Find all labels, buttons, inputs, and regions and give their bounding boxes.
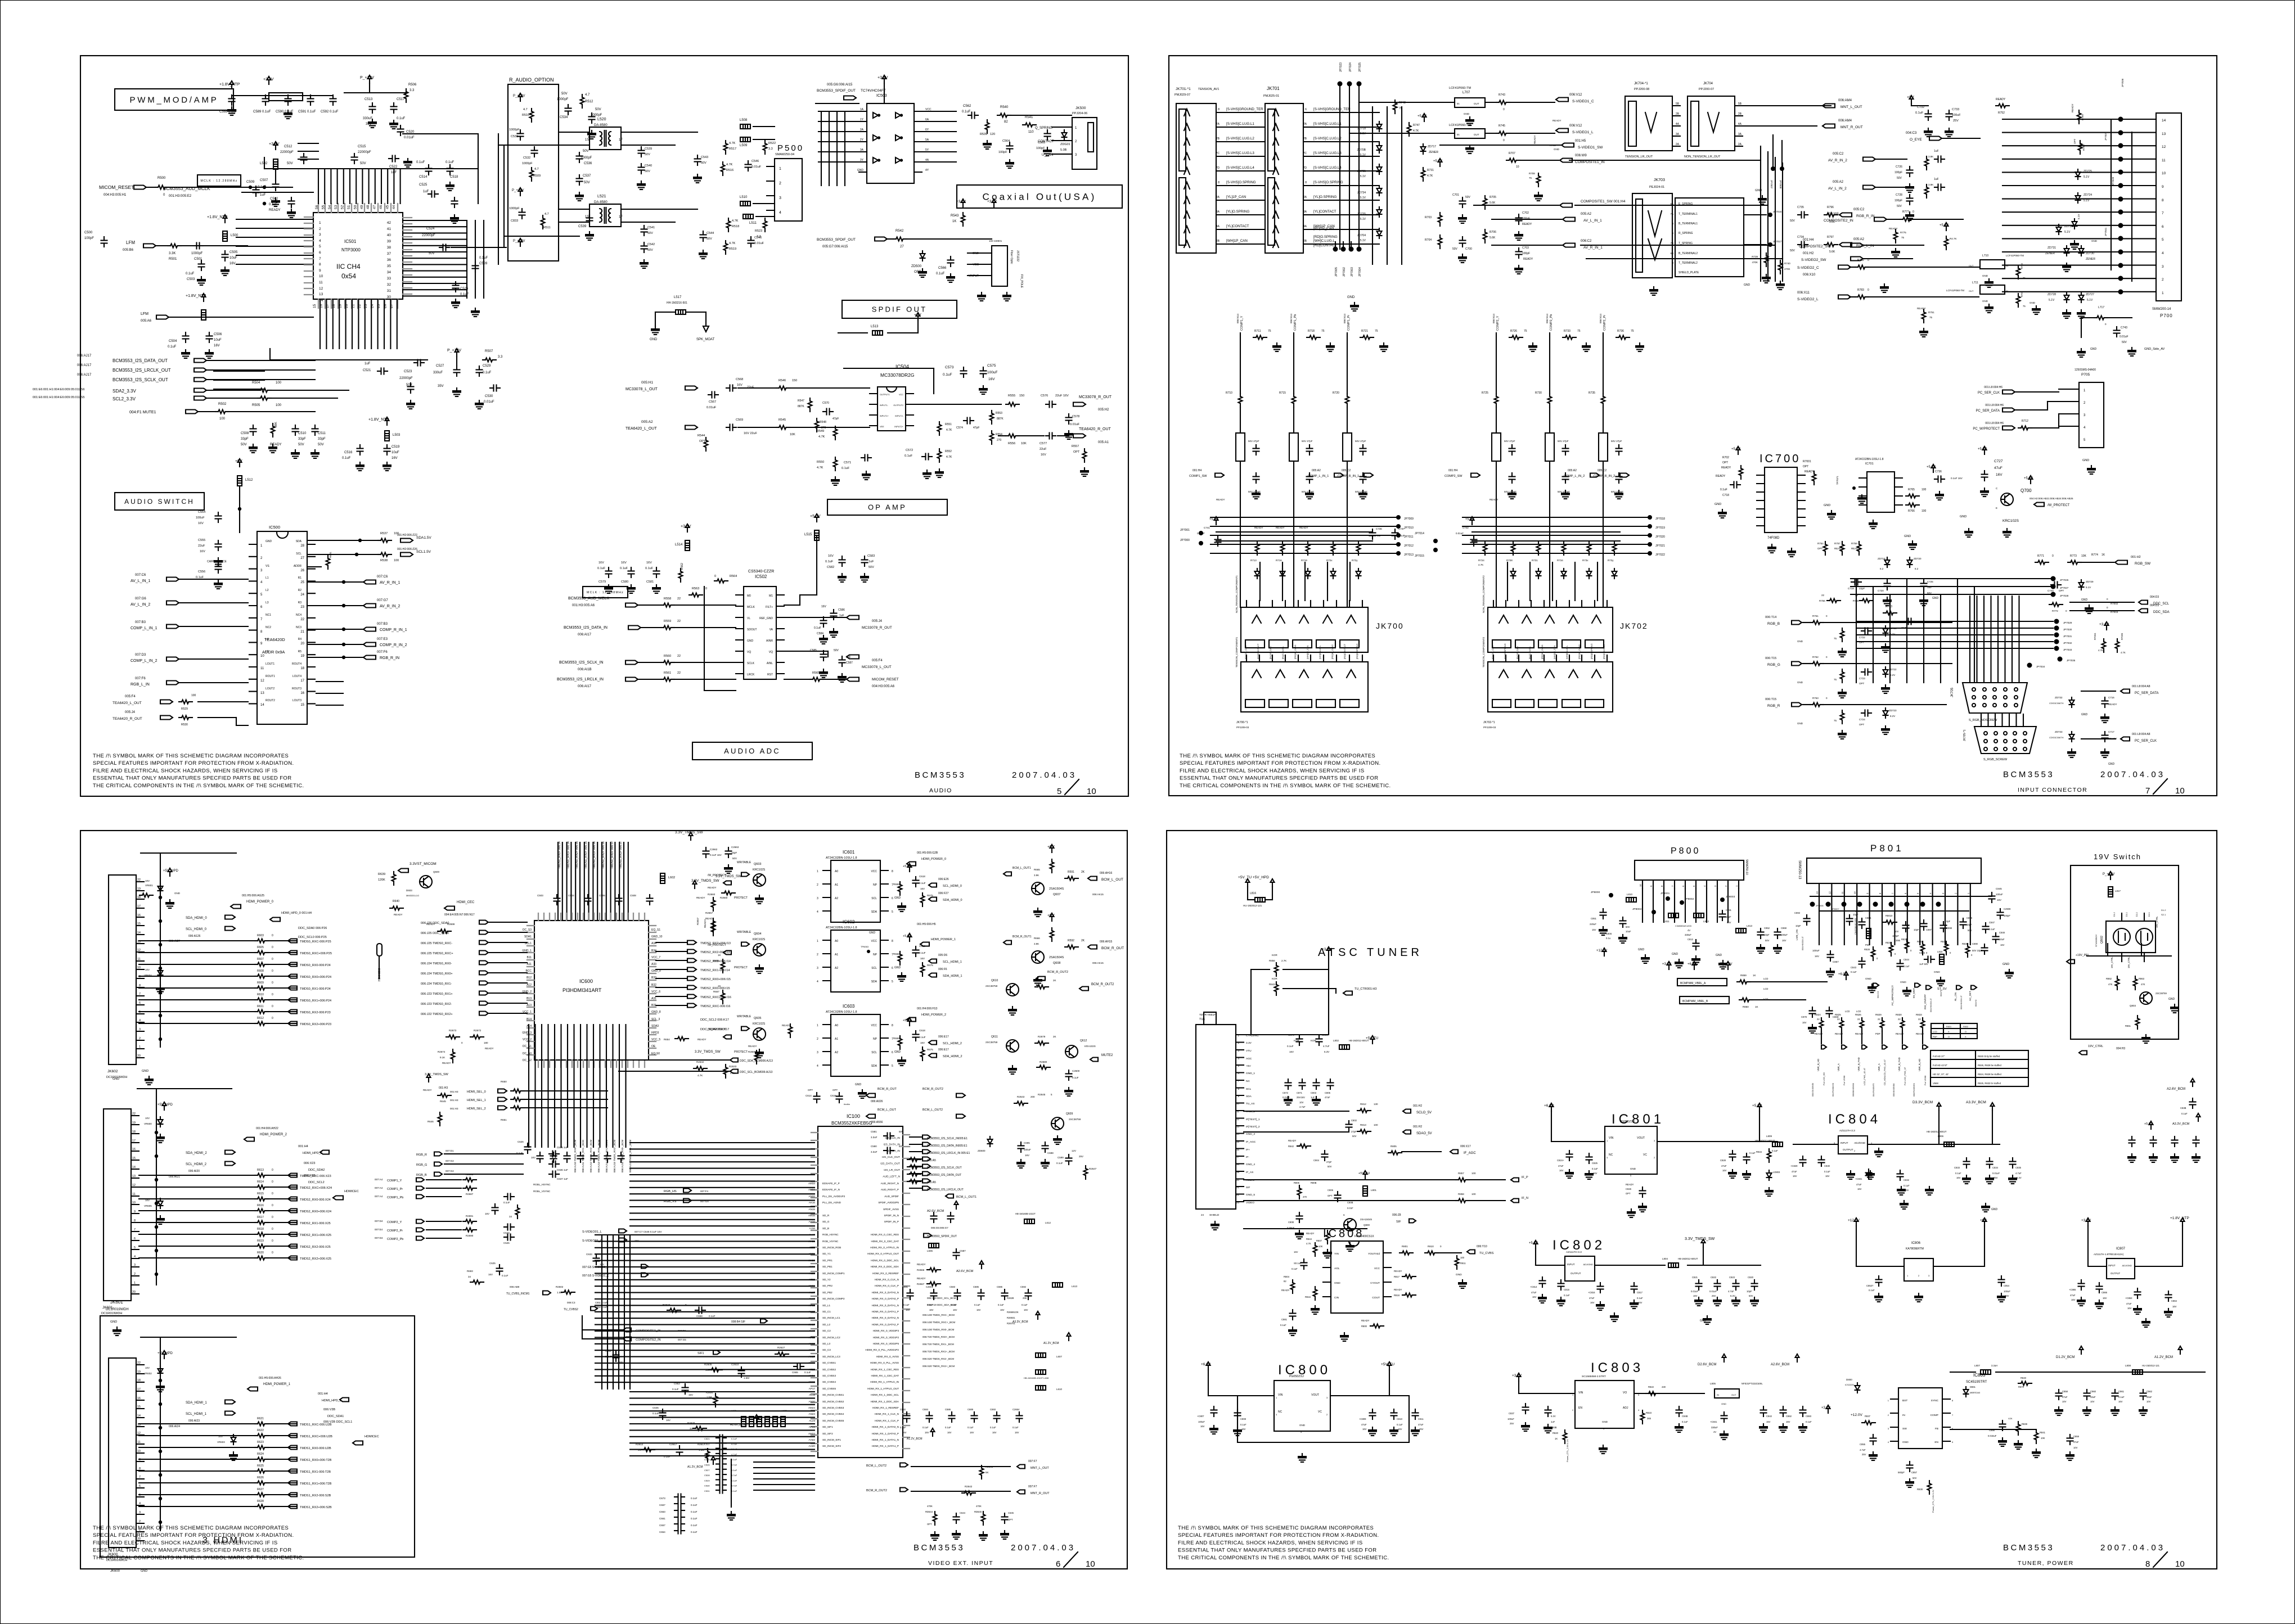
- svg-text:R734: R734: [1557, 559, 1563, 562]
- svg-text:001:H5:006:G2B: 001:H5:006:G2B: [917, 851, 938, 855]
- svg-text:HDMI_RX_0_CEC_DAT: HDMI_RX_0_CEC_DAT: [871, 1240, 899, 1243]
- svg-text:7B: 7B: [1670, 242, 1673, 245]
- svg-text:C833: C833: [511, 219, 518, 223]
- svg-text:R824, R829 be stuffed: R824, R829 be stuffed: [1978, 1073, 2001, 1076]
- svg-text:PC_SER_CLK: PC_SER_CLK: [1978, 391, 2000, 395]
- svg-text:HDMI_RX_1_DDC_SDA: HDMI_RX_1_DDC_SDA: [871, 1400, 899, 1403]
- svg-text:AN32: AN32: [809, 1195, 816, 1198]
- IC500 right pin: [307, 679, 315, 680]
- svg-text:ROUT4: ROUT4: [292, 662, 301, 666]
- svg-text:+C829: +C829: [1790, 1165, 1798, 1167]
- svg-text:3.3V: 3.3V: [1246, 1041, 1252, 1045]
- capacitor C569: [726, 425, 736, 431]
- svg-text:0.1uF: 0.1uF: [1806, 1420, 1812, 1423]
- diode ZD71x: [1612, 569, 1617, 579]
- svg-text:BCMPWM_VBRL_B: BCMPWM_VBRL_B: [1682, 1000, 1708, 1003]
- capacitor C535: [589, 113, 595, 123]
- svg-text:16V: 16V: [1693, 1294, 1698, 1297]
- connector JK705 S_RGB_NOSCREW: [1963, 683, 2027, 713]
- svg-text:C564: C564: [1002, 139, 1010, 143]
- svg-text:5: 5: [1916, 892, 1919, 894]
- inductor L708 LCF41P060-TM: [1455, 129, 1485, 138]
- svg-text:SD_INCM_SIF2: SD_INCM_SIF2: [822, 1445, 841, 1447]
- inductor L509: [740, 137, 750, 142]
- net flag: [244, 1138, 254, 1142]
- net flag: [1471, 473, 1480, 477]
- capacitor C591: [308, 95, 314, 105]
- junction JP7033: [2054, 646, 2059, 651]
- svg-text:18: 18: [300, 667, 304, 670]
- svg-text:18: 18: [1236, 1163, 1240, 1166]
- svg-text:L801: L801: [1371, 1189, 1377, 1192]
- svg-text:1: 1: [1967, 892, 1970, 894]
- svg-text:19: 19: [1236, 1171, 1240, 1174]
- svg-text:2007.04.03: 2007.04.03: [1011, 1543, 1075, 1553]
- P700 pin wire: [2121, 291, 2156, 292]
- svg-text:SYNC: SYNC: [1931, 1399, 1939, 1402]
- capacitor C586: [831, 610, 837, 620]
- JK701-1 pin: [1216, 127, 1224, 128]
- svg-text:0: 0: [1876, 957, 1878, 960]
- IC503 right pin: [914, 121, 922, 122]
- resistor R77y: [1925, 184, 1929, 198]
- svg-text:ESSENTIAL THAT ONLY MANUFATURE: ESSENTIAL THAT ONLY MANUFATURES SPECFIED…: [1178, 1548, 1376, 1554]
- svg-text:C579: C579: [598, 580, 606, 584]
- junction JP7022: [1648, 551, 1652, 556]
- svg-text:HDMI_RX_0_PLL_AVSS: HDMI_RX_0_PLL_AVSS: [870, 1361, 899, 1364]
- svg-text:1: 1: [1907, 1274, 1909, 1277]
- svg-text:1000pF: 1000pF: [557, 98, 569, 101]
- svg-text:IC806: IC806: [1911, 1242, 1921, 1245]
- ground: [983, 141, 992, 149]
- svg-text:[YL]O.SPRING: [YL]O.SPRING: [1226, 210, 1249, 214]
- svg-text:16V 22uF: 16V 22uF: [744, 432, 757, 435]
- svg-text:HDMI_RX_0_CEC_RES: HDMI_RX_0_CEC_RES: [871, 1233, 899, 1236]
- wire: [307, 540, 378, 541]
- capacitor C512: [301, 154, 307, 164]
- svg-text:IC500: IC500: [269, 525, 280, 530]
- svg-text:TU1: TU1: [1199, 1018, 1205, 1021]
- net flag: [628, 626, 641, 630]
- svg-text:SIF1: SIF1: [697, 1352, 704, 1355]
- resistor R538: [378, 553, 391, 557]
- pwr: [238, 459, 242, 467]
- svg-text:006:AJ17: 006:AJ17: [77, 354, 92, 358]
- svg-text:HDMI_RX_0_DATA0_P: HDMI_RX_0_DATA0_P: [872, 1297, 899, 1300]
- ground: [2100, 749, 2109, 757]
- svg-text:B: B: [1343, 1214, 1345, 1216]
- resistor R505: [258, 396, 271, 400]
- svg-text:R724: R724: [1478, 559, 1484, 562]
- svg-text:JP7036: JP7036: [2121, 78, 2124, 87]
- ground: [205, 350, 214, 358]
- svg-text:10pF: 10pF: [1747, 1290, 1752, 1293]
- capacitor C555: [215, 540, 222, 551]
- svg-text:R826, R829 be stuffed: R826, R829 be stuffed: [1978, 1064, 2001, 1067]
- svg-text:[GN]O.SPRING: [GN]O.SPRING: [1504, 643, 1506, 659]
- svg-text:55: 55: [321, 205, 325, 209]
- svg-text:VBR_B_HD: VBR_B_HD: [1918, 1059, 1921, 1071]
- svg-text:0.1uF: 0.1uF: [998, 1303, 1004, 1306]
- svg-text:R710: R710: [1226, 391, 1232, 395]
- svg-text:470K: 470K: [1784, 268, 1790, 270]
- svg-text:TMDS2_RX2-006:X25: TMDS2_RX2-006:X25: [300, 1246, 331, 1249]
- svg-text:C822: C822: [1711, 1276, 1717, 1279]
- svg-text:R556: R556: [1008, 442, 1015, 445]
- resistor R517: [724, 141, 728, 154]
- svg-text:0.1uF: 0.1uF: [269, 203, 278, 206]
- svg-text:16V: 16V: [1241, 1428, 1246, 1431]
- wires to JP dots 1: [1210, 517, 1398, 553]
- P700 pin wire: [2121, 172, 2156, 173]
- svg-text:AK16: AK16: [809, 1201, 816, 1204]
- zener ZD704: [1377, 228, 1382, 238]
- svg-text:16V: 16V: [1532, 1296, 1537, 1298]
- svg-text:Q612: Q612: [1080, 1039, 1087, 1043]
- resistor R754: [1824, 542, 1828, 555]
- transformer L521 DA-8580: [589, 204, 621, 227]
- svg-text:HDMI_HPD_0 001:H4: HDMI_HPD_0 001:H4: [281, 912, 312, 915]
- svg-text:0: 0: [272, 1005, 273, 1008]
- svg-text:1K: 1K: [1755, 1005, 1758, 1008]
- svg-text:4.7K: 4.7K: [818, 435, 825, 439]
- svg-text:JP7029: JP7029: [2063, 621, 2072, 624]
- svg-text:TENSION_LR_OUT: TENSION_LR_OUT: [1625, 155, 1653, 159]
- svg-text:16V: 16V: [1593, 1172, 1597, 1175]
- resistor R550: [834, 457, 838, 471]
- ground: [1881, 685, 1890, 693]
- box C590: [269, 93, 303, 101]
- svg-text:0.1uF: 0.1uF: [460, 293, 469, 296]
- svg-text:C84B: C84B: [1682, 1415, 1688, 1418]
- svg-text:Power_CTL_2.6V:1.2V: Power_CTL_2.6V:1.2V: [1932, 1490, 1934, 1513]
- svg-text:C899: C899: [1966, 917, 1973, 919]
- P700 pin wire: [2121, 145, 2156, 146]
- svg-text:8.2: 8.2: [1880, 567, 1884, 570]
- svg-text:BCM_L_OUT2: BCM_L_OUT2: [922, 1108, 943, 1112]
- junction JP7018: [1648, 515, 1652, 520]
- svg-text:0.1uF: 0.1uF: [936, 272, 945, 276]
- svg-text:7: 7: [1891, 892, 1894, 894]
- wire: [1863, 258, 1912, 259]
- svg-text:JP7021: JP7021: [1655, 544, 1665, 548]
- svg-text:PDP: PDP: [1933, 1036, 1937, 1038]
- svg-text:RST: RST: [767, 673, 773, 676]
- capacitor C528: [472, 262, 479, 272]
- junction JP7016: [1768, 213, 1772, 217]
- svg-text:3.9K: 3.9K: [1034, 874, 1039, 877]
- svg-text:READY: READY: [1721, 466, 1731, 470]
- JK701 pin names: [1313, 107, 1351, 243]
- svg-text:IN: IN: [1457, 133, 1460, 136]
- resistor R544: [704, 437, 708, 451]
- svg-text:005:C2: 005:C2: [1853, 208, 1865, 211]
- IC500 right pin names: [292, 540, 302, 702]
- svg-text:50V: 50V: [1912, 1477, 1917, 1479]
- ground: [1080, 468, 1089, 476]
- IC504 left pin: [870, 425, 877, 426]
- svg-text:B14: B14: [526, 1018, 532, 1021]
- svg-text:C700: C700: [1465, 247, 1472, 251]
- svg-text:887K: 887K: [997, 417, 1003, 421]
- zener ZD724: [2076, 193, 2081, 203]
- svg-text:SD_SIF1: SD_SIF1: [822, 1425, 833, 1428]
- svg-text:A0: A0: [835, 870, 838, 873]
- svg-text:WRITABLE: WRITABLE: [737, 1015, 751, 1018]
- svg-text:GND: GND: [1456, 1273, 1462, 1276]
- svg-text:0.1uF: 0.1uF: [445, 161, 454, 164]
- svg-text:4.7: 4.7: [585, 93, 590, 97]
- svg-text:OPT: OPT: [1817, 547, 1823, 550]
- svg-text:COMP: COMP: [1930, 1414, 1938, 1417]
- net flag: [1563, 218, 1575, 222]
- svg-text:0.1uF: 0.1uF: [967, 1426, 974, 1429]
- svg-text:C517: C517: [397, 98, 405, 101]
- svg-text:[RD]O.SPRING: [RD]O.SPRING: [1590, 643, 1593, 659]
- svg-text:C741: C741: [1204, 526, 1210, 529]
- svg-text:R518: R518: [732, 225, 739, 228]
- svg-text:MC33078_L_OUT: MC33078_L_OUT: [625, 387, 658, 391]
- resistor R728: [1511, 542, 1515, 555]
- svg-text:R512: R512: [585, 100, 593, 103]
- wire: [2047, 402, 2048, 410]
- svg-text:COMP2_Y: COMP2_Y: [387, 1221, 402, 1224]
- svg-text:006:N14: 006:N14: [1599, 313, 1602, 323]
- ground: [268, 444, 277, 453]
- svg-text:JP7009: JP7009: [1404, 517, 1414, 521]
- JK701-1 pin: [1216, 243, 1224, 245]
- ground: [922, 470, 931, 479]
- svg-text:3.3V_TMDS_SW: 3.3V_TMDS_SW: [1685, 1237, 1715, 1241]
- net flag: [685, 386, 697, 390]
- junction JP7021: [1648, 542, 1652, 547]
- svg-text:IC701: IC701: [1865, 462, 1874, 466]
- svg-text:001:H2: 001:H2: [1803, 252, 1814, 255]
- svg-text:16V: 16V: [1793, 1175, 1797, 1178]
- svg-text:C883: C883: [1806, 1415, 1812, 1418]
- svg-text:180: 180: [484, 1041, 488, 1044]
- svg-text:L607: L607: [1056, 1355, 1063, 1358]
- net flag: [2121, 737, 2130, 741]
- svg-text:R522: R522: [768, 142, 776, 145]
- IC700 right pin: [1797, 491, 1805, 493]
- svg-text:100pF: 100pF: [1892, 935, 1899, 937]
- svg-text:Q605: Q605: [754, 1017, 761, 1020]
- svg-text:R711: R711: [1254, 330, 1261, 333]
- svg-text:S_RGB_NOSCREW: S_RGB_NOSCREW: [1969, 719, 1997, 722]
- svg-text:JK602: JK602: [107, 1070, 118, 1073]
- svg-text:READY: READY: [696, 896, 705, 899]
- label box MCLK: [197, 175, 241, 186]
- svg-text:50V: 50V: [1790, 249, 1795, 252]
- svg-text:C727: C727: [1994, 459, 2003, 463]
- svg-text:10uF: 10uF: [391, 451, 399, 454]
- svg-text:0.1uF: 0.1uF: [1240, 1423, 1246, 1426]
- svg-text:HDMI_RX_0_VDD1P2: HDMI_RX_0_VDD1P2: [873, 1336, 899, 1339]
- svg-text:7: 7: [134, 1228, 136, 1231]
- svg-text:R501: R501: [169, 258, 177, 261]
- svg-text:C645: C645: [1008, 1512, 1014, 1514]
- svg-text:53: 53: [334, 205, 338, 209]
- svg-text:AN20: AN20: [809, 1400, 816, 1403]
- IC502 left pin: [736, 628, 744, 629]
- svg-text:HDMI_RX_1_DDC_SCL: HDMI_RX_1_DDC_SCL: [871, 1393, 899, 1396]
- svg-text:27pF: 27pF: [1326, 1161, 1332, 1163]
- svg-text:A1.2V_BCM: A1.2V_BCM: [1043, 1342, 1059, 1345]
- capacitor C544: [700, 231, 706, 241]
- svg-text:JP8006: JP8006: [1816, 904, 1824, 907]
- svg-text:SPECIAL FEATURES IMPORTANT FOR: SPECIAL FEATURES IMPORTANT FOR PROTECTIO…: [93, 1532, 294, 1539]
- capacitor C507: [273, 181, 279, 191]
- svg-text:16V: 16V: [906, 1309, 910, 1311]
- capacitor C733: [1946, 110, 1952, 120]
- svg-text:50V: 50V: [1327, 1165, 1332, 1168]
- svg-text:C518: C518: [450, 175, 458, 179]
- svg-text:+1.8V_NTP: +1.8V_NTP: [2170, 1216, 2189, 1220]
- svg-text:004:C3: 004:C3: [1906, 132, 1917, 135]
- svg-text:C572: C572: [906, 449, 913, 452]
- svg-text:AINL: AINL: [767, 662, 773, 665]
- svg-text:R706: R706: [1489, 231, 1496, 234]
- wire: [268, 987, 297, 989]
- junction: [342, 643, 345, 646]
- inductor L502: [273, 159, 278, 169]
- svg-text:4: 4: [2162, 251, 2164, 255]
- svg-text:SD_INCM_COMP2: SD_INCM_COMP2: [822, 1297, 845, 1300]
- svg-text:SPECIAL FEATURES IMPORTANT FOR: SPECIAL FEATURES IMPORTANT FOR PROTECTIO…: [93, 760, 294, 766]
- svg-text:1: 1: [779, 167, 781, 171]
- svg-text:8: 8: [1218, 181, 1219, 184]
- svg-text:R538: R538: [380, 559, 388, 562]
- net flag: [363, 643, 376, 647]
- svg-text:R7001: R7001: [1803, 460, 1811, 463]
- wire: [179, 658, 248, 660]
- svg-text:IF-: IF-: [1246, 1156, 1249, 1159]
- svg-text:0.1uF: 0.1uF: [168, 345, 177, 349]
- svg-text:1: 1: [134, 1282, 136, 1285]
- svg-text:READY: READY: [1523, 258, 1533, 261]
- svg-text:SD_L2: SD_L2: [822, 1323, 830, 1326]
- svg-text:34: 34: [509, 1215, 512, 1218]
- svg-text:C555: C555: [198, 539, 205, 542]
- svg-text:3.3uH: 3.3uH: [1991, 1364, 1997, 1367]
- IC503 left pin names: [857, 108, 864, 172]
- svg-text:1: 1: [139, 1045, 141, 1049]
- svg-text:10V: 10V: [145, 879, 150, 882]
- svg-text:A1.2V_BCM: A1.2V_BCM: [2154, 1356, 2173, 1359]
- svg-text:10pF: 10pF: [1764, 933, 1770, 936]
- svg-text:VBR_B_HD: VBR_B_HD: [1817, 1059, 1820, 1071]
- svg-text:006:X23: 006:X23: [304, 1162, 316, 1165]
- svg-text:A33: A33: [651, 963, 656, 966]
- svg-text:8: 8: [892, 870, 893, 873]
- P500 pin stub: [767, 181, 775, 182]
- svg-text:005:C2: 005:C2: [1597, 469, 1606, 472]
- wire: [456, 357, 457, 366]
- svg-text:5.1V: 5.1V: [2064, 231, 2071, 234]
- svg-text:C524: C524: [426, 227, 435, 231]
- svg-text:007:G2: 007:G2: [445, 1170, 454, 1172]
- svg-text:10V: 10V: [145, 1366, 150, 1369]
- svg-text:006:W9: 006:W9: [1575, 154, 1587, 157]
- svg-text:14: 14: [137, 1414, 141, 1418]
- resistor R553: [990, 410, 994, 424]
- svg-text:D3.3V_BCM: D3.3V_BCM: [1912, 1100, 1933, 1104]
- svg-text:48: 48: [366, 205, 370, 209]
- IC503 right pin names: [925, 108, 931, 172]
- svg-text:L515: L515: [804, 533, 812, 536]
- svg-text:3: 3: [1942, 892, 1945, 894]
- svg-text:16V: 16V: [391, 457, 398, 460]
- svg-text:10pF: 10pF: [1966, 923, 1972, 926]
- svg-text:7: 7: [1671, 885, 1674, 887]
- svg-text:20: 20: [137, 1054, 141, 1058]
- svg-text:RGB_HS: RGB_HS: [664, 1190, 677, 1193]
- svg-text:A2.6V_BCM: A2.6V_BCM: [956, 1270, 974, 1273]
- svg-text:Coaxial Out(USA): Coaxial Out(USA): [982, 192, 1096, 202]
- gnd: [1758, 196, 1767, 204]
- ground: [214, 558, 223, 566]
- resistor R702b: [1739, 466, 1743, 479]
- IC502 right pin: [776, 606, 784, 607]
- svg-text:005:G6:006:AI15: 005:G6:006:AI15: [827, 83, 853, 87]
- svg-text:[S-VHS]GROUND_TER: [S-VHS]GROUND_TER: [1226, 107, 1263, 111]
- svg-text:50V 27pF: 50V 27pF: [1558, 440, 1569, 443]
- ground: [652, 585, 661, 593]
- svg-text:0: 0: [1910, 949, 1912, 952]
- svg-text:7: 7: [139, 1476, 141, 1479]
- svg-text:SDA_HDMI_0: SDA_HDMI_0: [186, 917, 207, 920]
- svg-text:BCM3553_I2S_DATA_OUT: BCM3553_I2S_DATA_OUT: [927, 1174, 961, 1177]
- svg-text:[RD]1P_CAN2: [RD]1P_CAN2: [1578, 644, 1581, 659]
- svg-text:47uF: 47uF: [1856, 1183, 1862, 1186]
- svg-text:R743: R743: [1498, 93, 1505, 97]
- svg-text:006:AI1B: 006:AI1B: [578, 668, 592, 671]
- P705 pin wire: [2059, 413, 2079, 414]
- svg-text:C698: C698: [1047, 1152, 1054, 1154]
- diode ZD71x: [1511, 569, 1516, 579]
- svg-text:001:H5:006:AH26: 001:H5:006:AH26: [259, 1377, 281, 1380]
- svg-text:006:AH15: 006:AH15: [1100, 940, 1112, 944]
- svg-text:TMDS1_RX1+006:T2B: TMDS1_RX1+006:T2B: [300, 1482, 332, 1486]
- svg-text:R665: R665: [1034, 868, 1040, 871]
- svg-text:JK705: JK705: [1951, 687, 1954, 697]
- wire: [1824, 663, 1862, 664]
- svg-text:6: 6: [892, 897, 893, 900]
- svg-text:C960: C960: [2090, 1390, 2096, 1393]
- svg-text:16V: 16V: [1997, 899, 2001, 901]
- IC700 left pin: [1757, 483, 1765, 484]
- svg-text:R829: R829: [1875, 1013, 1882, 1016]
- svg-text:BCM3553_SPDIF_OUT: BCM3553_SPDIF_OUT: [817, 238, 856, 242]
- svg-text:6: 6: [139, 1002, 141, 1005]
- svg-text:AV_L_IN_2: AV_L_IN_2: [1828, 187, 1847, 191]
- ground: [1838, 689, 1847, 698]
- svg-text:C529: C529: [483, 364, 491, 368]
- svg-text:17: 17: [300, 679, 304, 683]
- resistor R775: [1894, 229, 1898, 243]
- resistor R783: [1855, 295, 1869, 299]
- svg-text:C842: C842: [1766, 1415, 1772, 1418]
- IC500 left pin: [249, 580, 257, 581]
- svg-text:R72y: R72y: [1352, 559, 1358, 562]
- svg-text:31: 31: [387, 289, 391, 293]
- IC500 left pin: [249, 605, 257, 606]
- svg-text:C852: C852: [1764, 927, 1770, 930]
- svg-text:007:C6: 007:C6: [135, 574, 146, 577]
- svg-text:SPDIF_IN_P: SPDIF_IN_P: [884, 1220, 899, 1223]
- section label Coaxial Out USA: [957, 185, 1122, 208]
